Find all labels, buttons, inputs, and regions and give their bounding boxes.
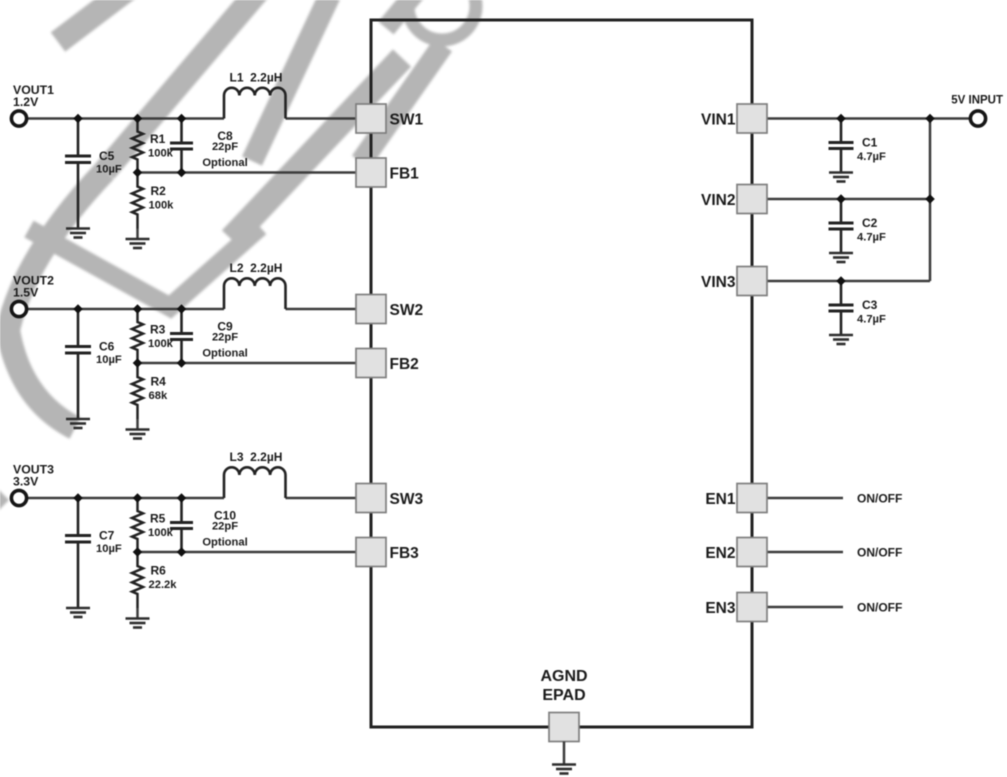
- svg-text:C2: C2: [862, 216, 878, 230]
- svg-text:R4: R4: [151, 375, 167, 389]
- svg-text:4.7µF: 4.7µF: [857, 151, 886, 163]
- svg-text:1.2V: 1.2V: [13, 95, 39, 109]
- svg-text:SW1: SW1: [390, 112, 424, 129]
- svg-text:FB1: FB1: [390, 166, 420, 183]
- svg-text:R2: R2: [151, 184, 167, 198]
- svg-text:Optional: Optional: [202, 537, 247, 549]
- svg-text:10µF: 10µF: [96, 354, 122, 366]
- svg-text:R1: R1: [150, 132, 166, 146]
- svg-text:100k: 100k: [148, 148, 174, 160]
- svg-text:SW3: SW3: [390, 491, 424, 508]
- svg-text:L1 2.2µH: L1 2.2µH: [230, 71, 283, 85]
- svg-text:EPAD: EPAD: [542, 687, 585, 704]
- svg-text:FB3: FB3: [390, 545, 420, 562]
- svg-text:100k: 100k: [148, 527, 174, 539]
- svg-text:10µF: 10µF: [96, 543, 122, 555]
- svg-text:100k: 100k: [149, 200, 175, 212]
- svg-text:ON/OFF: ON/OFF: [857, 601, 902, 615]
- svg-text:R3: R3: [150, 323, 166, 337]
- svg-text:C7: C7: [99, 529, 115, 543]
- svg-text:FB2: FB2: [390, 356, 419, 373]
- svg-text:22.2k: 22.2k: [149, 579, 178, 591]
- svg-text:3.3V: 3.3V: [13, 475, 39, 489]
- svg-text:VIN3: VIN3: [701, 274, 736, 291]
- svg-text:C6: C6: [99, 340, 115, 354]
- svg-text:22pF: 22pF: [212, 332, 238, 344]
- svg-text:1.5V: 1.5V: [13, 286, 39, 300]
- svg-text:ON/OFF: ON/OFF: [857, 492, 902, 506]
- svg-text:R6: R6: [151, 564, 167, 578]
- svg-text:5V INPUT: 5V INPUT: [951, 95, 1003, 107]
- svg-text:EN2: EN2: [705, 545, 735, 562]
- svg-text:AGND: AGND: [540, 668, 587, 685]
- svg-text:VIN2: VIN2: [701, 192, 735, 209]
- svg-text:10µF: 10µF: [96, 164, 122, 176]
- svg-text:EN3: EN3: [705, 600, 736, 617]
- svg-text:EN1: EN1: [705, 491, 736, 508]
- svg-text:L3 2.2µH: L3 2.2µH: [230, 450, 283, 464]
- svg-text:4.7µF: 4.7µF: [857, 232, 886, 244]
- svg-text:C5: C5: [99, 149, 115, 163]
- svg-text:4.7µF: 4.7µF: [857, 314, 886, 326]
- svg-text:L2 2.2µH: L2 2.2µH: [230, 261, 283, 275]
- svg-text:68k: 68k: [149, 390, 168, 402]
- svg-text:ON/OFF: ON/OFF: [857, 546, 902, 560]
- svg-text:100k: 100k: [148, 338, 174, 350]
- svg-text:22pF: 22pF: [212, 521, 238, 533]
- svg-text:C3: C3: [862, 298, 878, 312]
- svg-text:C1: C1: [862, 136, 878, 150]
- svg-text:Optional: Optional: [202, 157, 247, 169]
- svg-text:R5: R5: [150, 512, 166, 526]
- svg-text:Optional: Optional: [202, 348, 247, 360]
- svg-text:VIN1: VIN1: [701, 112, 736, 129]
- svg-text:22pF: 22pF: [212, 141, 238, 153]
- svg-text:SW2: SW2: [390, 302, 424, 319]
